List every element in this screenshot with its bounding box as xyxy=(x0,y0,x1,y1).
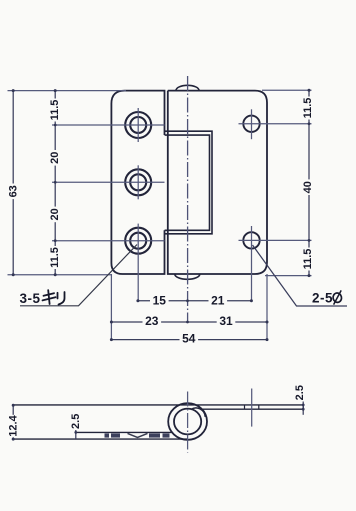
svg-text:11.5: 11.5 xyxy=(49,100,61,121)
hole edge ticks right leaf xyxy=(245,405,259,409)
svg-text:2.5: 2.5 xyxy=(70,414,82,429)
svg-text:11.5: 11.5 xyxy=(49,247,61,268)
dim line 15/21 xyxy=(138,300,252,302)
top extension line left xyxy=(8,90,127,92)
left leaf plate outline xyxy=(111,91,164,274)
dim 2.5 left line xyxy=(75,413,77,439)
pin bottom bump xyxy=(175,274,200,279)
side tick dots xyxy=(12,404,305,441)
svg-text:23: 23 xyxy=(145,314,159,328)
hole L3 xyxy=(125,228,151,254)
bottom extension line left xyxy=(8,274,112,276)
dimension line 63 xyxy=(12,91,14,275)
top extension line right xyxy=(262,89,312,91)
bottom line / left leaf bottom xyxy=(13,438,188,440)
hole R1 xyxy=(243,116,259,132)
pin top bump xyxy=(176,85,199,90)
svg-text:12.4: 12.4 xyxy=(8,414,20,436)
right labels xyxy=(303,97,314,120)
svg-text:20: 20 xyxy=(49,152,61,164)
hole row line L1 xyxy=(52,124,165,126)
dim line 23/31 xyxy=(111,321,267,323)
hole L2 crosshair vertical xyxy=(137,165,139,199)
leader 2-5dia xyxy=(253,245,348,306)
side center line xyxy=(187,392,189,453)
hole R2 xyxy=(243,232,259,248)
dim 2.5 right line xyxy=(302,394,304,415)
curl end xyxy=(191,408,205,417)
svg-text:11.5: 11.5 xyxy=(302,249,314,270)
svg-text:21: 21 xyxy=(211,294,225,308)
svg-text:54: 54 xyxy=(182,332,196,346)
label 2.5 left xyxy=(70,413,81,430)
svg-text:2.5: 2.5 xyxy=(294,385,306,400)
kiri katakana drawn xyxy=(43,290,65,304)
tick dots xyxy=(12,89,311,341)
extension vertical right edge xyxy=(266,274,268,341)
svg-text:3-5: 3-5 xyxy=(20,291,41,306)
bottom labels xyxy=(150,295,169,306)
knuckle outer xyxy=(168,403,207,440)
label 12.4 xyxy=(8,415,19,438)
right leaf bottom xyxy=(202,408,304,410)
hole row line R1 xyxy=(239,123,312,125)
dim 12.4 line xyxy=(12,405,14,439)
svg-text:40: 40 xyxy=(302,181,314,193)
hole center line right xyxy=(251,389,253,427)
svg-text:63: 63 xyxy=(8,185,20,197)
svg-text:20: 20 xyxy=(49,208,61,220)
svg-text:11.5: 11.5 xyxy=(302,98,314,119)
knuckle cutout outer rectangle xyxy=(165,131,212,234)
dim line left inner (11.5/20/20/11.5) xyxy=(54,91,56,275)
extension vertical left edge xyxy=(110,274,112,341)
hole L1 crosshair vertical xyxy=(137,108,139,142)
top line / right leaf top xyxy=(13,404,303,406)
dim line right (11.5/40/11.5) xyxy=(308,90,310,275)
countersink marks on left leaf xyxy=(105,433,170,437)
dim line 54 xyxy=(111,339,267,341)
leader 3-5kiri xyxy=(20,245,137,306)
hole row line L2 xyxy=(52,181,165,183)
center axis chain line xyxy=(187,76,189,323)
bottom extension line right xyxy=(265,275,312,277)
hole L3 crosshair vertical / extension to dim 15 xyxy=(137,224,139,302)
hole L2 xyxy=(125,169,151,195)
left leaf top xyxy=(76,431,173,433)
right leaf end cap xyxy=(302,405,304,409)
hole L1 xyxy=(125,112,151,138)
label 63 xyxy=(8,184,19,200)
hole R1 crosshair vertical xyxy=(251,109,253,139)
knuckle inner xyxy=(174,409,201,435)
left inner labels xyxy=(50,99,61,122)
knuckle cutout inner rectangle xyxy=(165,135,210,230)
svg-text:31: 31 xyxy=(219,314,233,328)
hole R2 crosshair vertical / extension to dim 21 xyxy=(251,226,253,302)
right leaf plate outline xyxy=(168,91,267,274)
hole row line R2 xyxy=(239,239,312,241)
label 2.5 right xyxy=(295,384,306,401)
svg-text:2-5: 2-5 xyxy=(312,291,333,306)
hole row line L3 xyxy=(52,240,165,242)
svg-text:15: 15 xyxy=(153,293,167,307)
